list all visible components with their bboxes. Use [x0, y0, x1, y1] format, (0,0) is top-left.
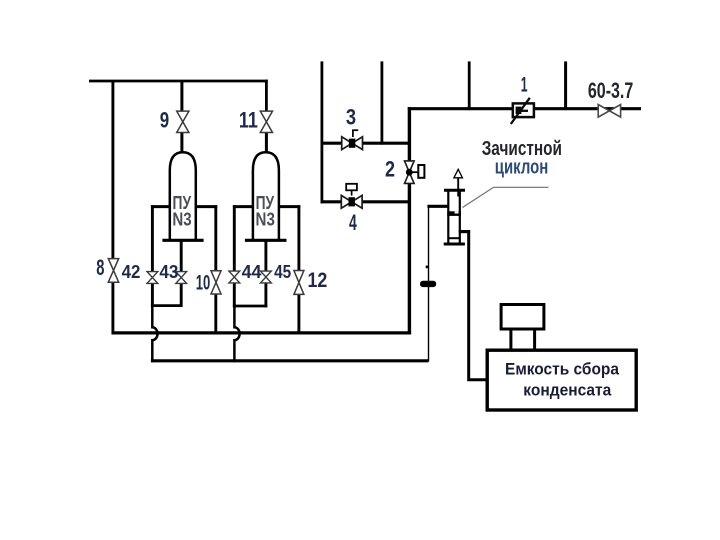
valve 43	[176, 272, 187, 284]
wire descender D2 with hop over bus A	[234, 305, 239, 363]
valve 42	[147, 272, 158, 284]
vessel 2 bottom bar	[245, 239, 287, 242]
valve 4	[341, 184, 362, 208]
valve 12	[294, 271, 304, 295]
wire valve 3 line	[321, 142, 411, 145]
orifice dash on riser	[420, 281, 436, 287]
wire vessel 2 center drop to valve 45	[264, 241, 267, 307]
wire cyclone outlet down to tank	[469, 230, 489, 380]
wire riser to valve 8	[111, 81, 114, 335]
valve 10	[211, 271, 221, 294]
wire bus A horizontal	[112, 331, 412, 334]
svg-text:4: 4	[349, 210, 357, 235]
wire valve 4 line	[321, 200, 411, 203]
condensate tank box	[487, 350, 636, 410]
wire top vertical at x=565	[564, 61, 567, 110]
svg-text:11: 11	[239, 107, 258, 132]
vessel 1 bottom bar	[162, 239, 203, 242]
wire main header right	[408, 107, 641, 110]
svg-text:44: 44	[242, 262, 262, 282]
cyclone left wall	[447, 190, 449, 244]
svg-text:60-3.7: 60-3.7	[588, 78, 633, 103]
svg-text:циклон: циклон	[495, 156, 549, 179]
valve 9	[177, 111, 189, 132]
tank neck left	[509, 329, 512, 352]
wire jacket2 right drop to valve 12	[297, 205, 300, 334]
valve 60-3.7 gate	[598, 105, 620, 118]
valve 8	[108, 259, 118, 283]
wire jacket2 left drop to valve 44	[233, 205, 236, 307]
jacket vessel 2 right stub	[278, 205, 300, 208]
svg-text:8: 8	[96, 255, 104, 280]
cyclone vortex tube	[457, 177, 459, 196]
wire jacket1 right drop to valve 10	[214, 205, 217, 334]
wire vessel 1 center drop to valve 43	[180, 241, 183, 307]
cyclone outlet stub	[459, 230, 470, 233]
leader line to cyclone label	[463, 187, 549, 207]
wire riser to valve 11 / vessel 2 inlet	[265, 80, 268, 154]
wire top vertical at x=382	[380, 61, 383, 144]
svg-text:45: 45	[274, 262, 291, 282]
svg-text:2: 2	[385, 157, 395, 182]
cyclone bottom cap	[444, 243, 465, 246]
valve 3	[342, 130, 363, 149]
wire jacket1 left drop to valve 42	[151, 205, 154, 307]
valve 2	[405, 161, 425, 184]
svg-text:9: 9	[160, 107, 169, 132]
svg-text:43: 43	[159, 262, 178, 282]
cyclone lower tray line	[448, 237, 460, 239]
valve 44	[229, 271, 240, 283]
valve 11	[260, 111, 272, 132]
wire riser to valve 9 / vessel 1 inlet	[180, 81, 183, 154]
cyclone right wall	[459, 190, 461, 244]
jacket vessel 1 left stub	[151, 205, 170, 208]
valve 45	[261, 271, 272, 283]
jacket vessel 2 left stub	[233, 205, 253, 208]
node U-bar joining lines 44/45	[233, 305, 267, 308]
vessel ПУ N3 no.2 body	[253, 152, 279, 241]
wire bus C horizontal	[151, 359, 429, 362]
svg-text:N3: N3	[172, 210, 191, 230]
svg-text:конденсата: конденсата	[523, 381, 612, 399]
tank neck right	[533, 329, 536, 352]
node tick on riser	[426, 266, 429, 269]
vessel ПУ N3 no.1 body	[170, 152, 196, 241]
svg-text:3: 3	[346, 104, 356, 129]
cyclone top cap	[444, 189, 465, 192]
svg-text:N3: N3	[256, 210, 275, 230]
wire heavy vertical at x=409	[408, 107, 411, 334]
cyclone inner band	[447, 211, 461, 216]
cyclone vent arrow	[454, 169, 463, 178]
condensate tank nozzle box	[501, 305, 544, 330]
jacket vessel 1 right stub	[196, 205, 218, 208]
svg-text:1: 1	[521, 74, 528, 97]
svg-text:10: 10	[196, 271, 211, 294]
wire top vertical at x=322	[320, 61, 323, 203]
wire header line top-left	[89, 80, 268, 83]
cyclone inlet stub	[427, 205, 449, 208]
svg-text:Емкость сбора: Емкость сбора	[505, 361, 620, 379]
wire thin riser to cyclone inlet	[428, 206, 430, 361]
svg-text:42: 42	[122, 262, 141, 282]
svg-text:12: 12	[308, 269, 328, 292]
wire top vertical at x=469	[468, 61, 471, 110]
wire descender D1 with hop over bus A	[152, 304, 157, 362]
valve 1 regulator	[511, 98, 534, 124]
node U-bar joining lines 42/43	[151, 304, 183, 307]
